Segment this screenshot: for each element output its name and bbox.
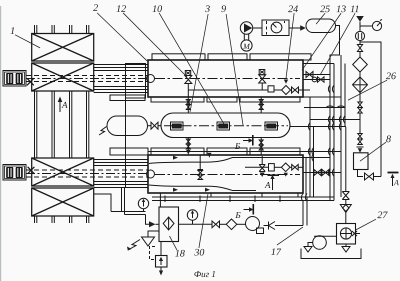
pump to motor coupling [244, 34, 248, 40]
drain row exit y88 [303, 89, 310, 91]
accumulator tank 25 [306, 19, 336, 33]
safety diamond empty [353, 57, 368, 72]
coiler unit left of stand 2 [3, 165, 26, 181]
pipe 17 to riser [275, 225, 303, 227]
valve bowtie upper row [292, 87, 299, 93]
sump tank open bracket [301, 249, 361, 259]
leader 26 [348, 80, 387, 100]
leader 17 [277, 227, 303, 245]
flow arrow bottom2 lower vessel [205, 188, 210, 192]
relief stack pipe [359, 22, 361, 32]
marker B lower with arrow [244, 204, 254, 215]
drop vent valve x200 in lower vessel [198, 155, 204, 180]
filter diamond upper row [282, 86, 291, 95]
sampler square lower row [269, 164, 275, 171]
svg-text:A: A [393, 178, 399, 187]
steam line between heater tank and lower vessel [148, 151, 341, 153]
upper vessel bottom flange segments [151, 97, 300, 102]
condensate pot 8 [354, 153, 369, 170]
heater tank outlet line right [290, 126, 346, 128]
svg-text:1: 1 [10, 26, 15, 37]
tap line from lower rails [94, 194, 111, 212]
marker B upper with arrow [243, 135, 253, 146]
pump suction funnel arrow [304, 247, 312, 253]
leader 25 [316, 13, 325, 24]
drain headers below lower vessel [152, 196, 334, 198]
sampler square upper row [268, 86, 274, 92]
svg-text:A: A [264, 180, 271, 190]
diamond strainer pipe 17 [226, 219, 237, 230]
pilot dashed line [150, 247, 156, 260]
header flange ticks [165, 196, 280, 203]
rail lines between stands [35, 91, 89, 158]
direction arrow A upper [58, 97, 63, 113]
header connectors [160, 193, 298, 207]
filter unit 18 [159, 207, 179, 242]
pipe box8 bottom loop [358, 170, 364, 177]
valve chain x261 below heater tank [259, 138, 263, 156]
drain row in upper vessel [188, 89, 268, 91]
connector line to relief chain [310, 119, 360, 121]
pump on pipe 17 [246, 217, 264, 234]
steam line between vessel and heater tank [304, 107, 345, 109]
lower centerline exit with twin bowties [303, 170, 341, 176]
flow arrow top lower vessel [173, 156, 178, 160]
svg-text:M: M [242, 42, 251, 51]
coiler unit left of stand 1 [3, 71, 26, 87]
circulation pump bottom right [313, 236, 337, 250]
leader 10 [159, 13, 224, 124]
mill stand 1 upper box with X [32, 34, 94, 62]
leader 12 [123, 13, 187, 77]
bowtie valve between tanks [151, 122, 158, 129]
leader 1 [15, 35, 40, 48]
right bypass riser [360, 42, 381, 177]
valve chain x261 above heater tank [259, 97, 263, 113]
flow indicator circle [355, 31, 364, 40]
vent valve on upper centerline x188 [185, 71, 192, 98]
svg-text:3: 3 [204, 4, 210, 15]
lower vessel centerline [155, 174, 300, 176]
leader 27 [355, 219, 376, 230]
entry flange upper left [110, 95, 145, 101]
bowtie valve pipe 17 [212, 221, 220, 228]
rail stubs below stand 2 [35, 216, 89, 223]
steam trap box [156, 256, 168, 268]
stack valve hourglass [357, 41, 362, 57]
strip path dashed lines upper [26, 76, 148, 82]
heater tank centerline [164, 125, 288, 127]
centerline extension right with sensor and valve [303, 77, 330, 82]
mill stand rail stubs above stand 1 [35, 25, 89, 34]
trap outlet arrow down [159, 267, 163, 276]
drop pipe pair to filter unit [111, 188, 149, 225]
svg-text:24: 24 [288, 4, 298, 15]
lower vacuum chamber vessel [148, 155, 303, 193]
entry seal block upper [126, 64, 146, 99]
flow arrow top2 lower vessel [207, 153, 211, 158]
lower vessel top flange segments [151, 148, 300, 155]
upper vessel top flange segments [152, 54, 311, 60]
vessel bottom line right y97 [303, 96, 341, 98]
small arrow above diamond [284, 80, 288, 84]
filter diamond lower row [281, 163, 290, 172]
upper vessel sight circle [147, 75, 155, 83]
valve bowtie lower row [292, 165, 299, 171]
steam feed line vessel top right [303, 63, 334, 65]
pipe small tank to valve [148, 125, 152, 127]
svg-text:Фиг 1: Фиг 1 [194, 269, 216, 279]
leader 24 [286, 13, 294, 78]
svg-text:Б: Б [234, 141, 241, 151]
upper vacuum chamber vessel [148, 60, 303, 97]
svg-text:2: 2 [93, 3, 98, 14]
strip centerline lower (dash-dot) [26, 173, 148, 175]
small arrow below diamond lower row [284, 173, 288, 177]
vent valve assembly x262 upper [259, 70, 266, 91]
twin valve pair lower [358, 134, 362, 145]
bar and arrow into box 8 [357, 147, 364, 153]
svg-text:9: 9 [221, 4, 226, 15]
leader 9 [226, 14, 243, 125]
motor M circle [241, 40, 252, 51]
leader 30 [199, 194, 208, 248]
roller table lines upper entry [94, 65, 148, 93]
box27 drain arrow [342, 247, 350, 253]
mill stand 2 lower box with X [32, 188, 94, 216]
funnel sight glass [340, 200, 351, 224]
pump suction pipe [308, 243, 313, 247]
weld cross mark upper [27, 78, 34, 85]
pipe tank 25 down to manifold [330, 26, 340, 64]
leader 2 [97, 13, 147, 61]
blowdown valve X on drop pipe [342, 127, 349, 200]
leader 11 [320, 13, 355, 75]
svg-text:A: A [61, 100, 68, 110]
drain squiggle left of small tank [99, 127, 107, 136]
pipe filter to trap [160, 242, 162, 256]
flow arrow bottom lower vessel [173, 188, 178, 192]
vent valve assembly x262 lower [259, 156, 265, 177]
svg-text:27: 27 [377, 210, 388, 221]
riser pair from pipe 17 [303, 197, 307, 226]
pipe with arrow into tank 25 [289, 27, 301, 29]
upper vessel centerline [155, 78, 300, 80]
drain row in lower vessel [245, 166, 269, 168]
right manifold vertical pipes [306, 55, 345, 201]
instrument circle on pipe 17 [187, 210, 197, 225]
check valve pipe 17 [269, 222, 276, 230]
relief stack arrow top [356, 16, 364, 22]
svg-text:10: 10 [152, 4, 162, 15]
svg-text:17: 17 [271, 247, 282, 258]
svg-text:30: 30 [193, 247, 204, 258]
mill stand 1 lower box with X [32, 63, 94, 91]
leader 18 [169, 236, 177, 250]
gauge block 24 [262, 20, 289, 36]
strip centerline upper (dash-dot) [26, 78, 148, 80]
instrument circle on drop pipe [138, 198, 148, 211]
loop bowtie valve [365, 173, 374, 180]
lower vessel duct top profile [149, 158, 330, 164]
middle small tank [107, 116, 148, 136]
drain from filter unit left [148, 231, 159, 237]
mill stand 2 upper box with X [32, 158, 94, 186]
svg-text:12: 12 [116, 4, 126, 15]
heater element 1 [171, 122, 184, 130]
leader 3 [190, 14, 208, 112]
pipe 17 horizontal run [179, 223, 213, 225]
leader 13 [302, 13, 341, 70]
atmosphere squiggle arrow [127, 240, 140, 251]
pipe hop marks (crossing jogs) [301, 85, 345, 202]
twin valve pair upper [358, 102, 362, 113]
weld cross mark lower [28, 167, 35, 174]
svg-text:Б: Б [234, 210, 241, 220]
strip path dashed lines lower [26, 170, 148, 177]
roller table lines lower entry [94, 160, 148, 188]
svg-text:8: 8 [386, 134, 391, 145]
vent triangle [142, 237, 155, 246]
svg-text:26: 26 [386, 71, 396, 82]
gauge branch to pressure gauge [360, 20, 382, 31]
svg-text:18: 18 [175, 248, 185, 259]
leader 8 [360, 142, 386, 161]
lower vessel sight circle [147, 170, 155, 178]
heater tank (long capsule) [161, 113, 290, 138]
filter diamond crossed [353, 77, 368, 93]
flow arrow into filter unit 18 [149, 221, 156, 227]
valve chain x188 below heater tank [186, 138, 190, 155]
feed pump circle top [240, 22, 252, 34]
ground reference A right [388, 173, 399, 187]
separator box 27 [337, 224, 361, 245]
reference mark A in lower vessel [268, 175, 280, 190]
valve chain x188 above heater tank [186, 97, 190, 113]
pipe pump to gauge block [253, 27, 262, 29]
drain pipe from seal block [125, 98, 127, 188]
heater element 2 [217, 122, 230, 130]
entry flange lower left [110, 148, 148, 155]
lower vessel duct bottom profile [149, 185, 256, 191]
heater element 3 [265, 122, 278, 130]
relief line y74 with bowtie [303, 72, 330, 78]
scan border left edge [0, 6, 2, 281]
